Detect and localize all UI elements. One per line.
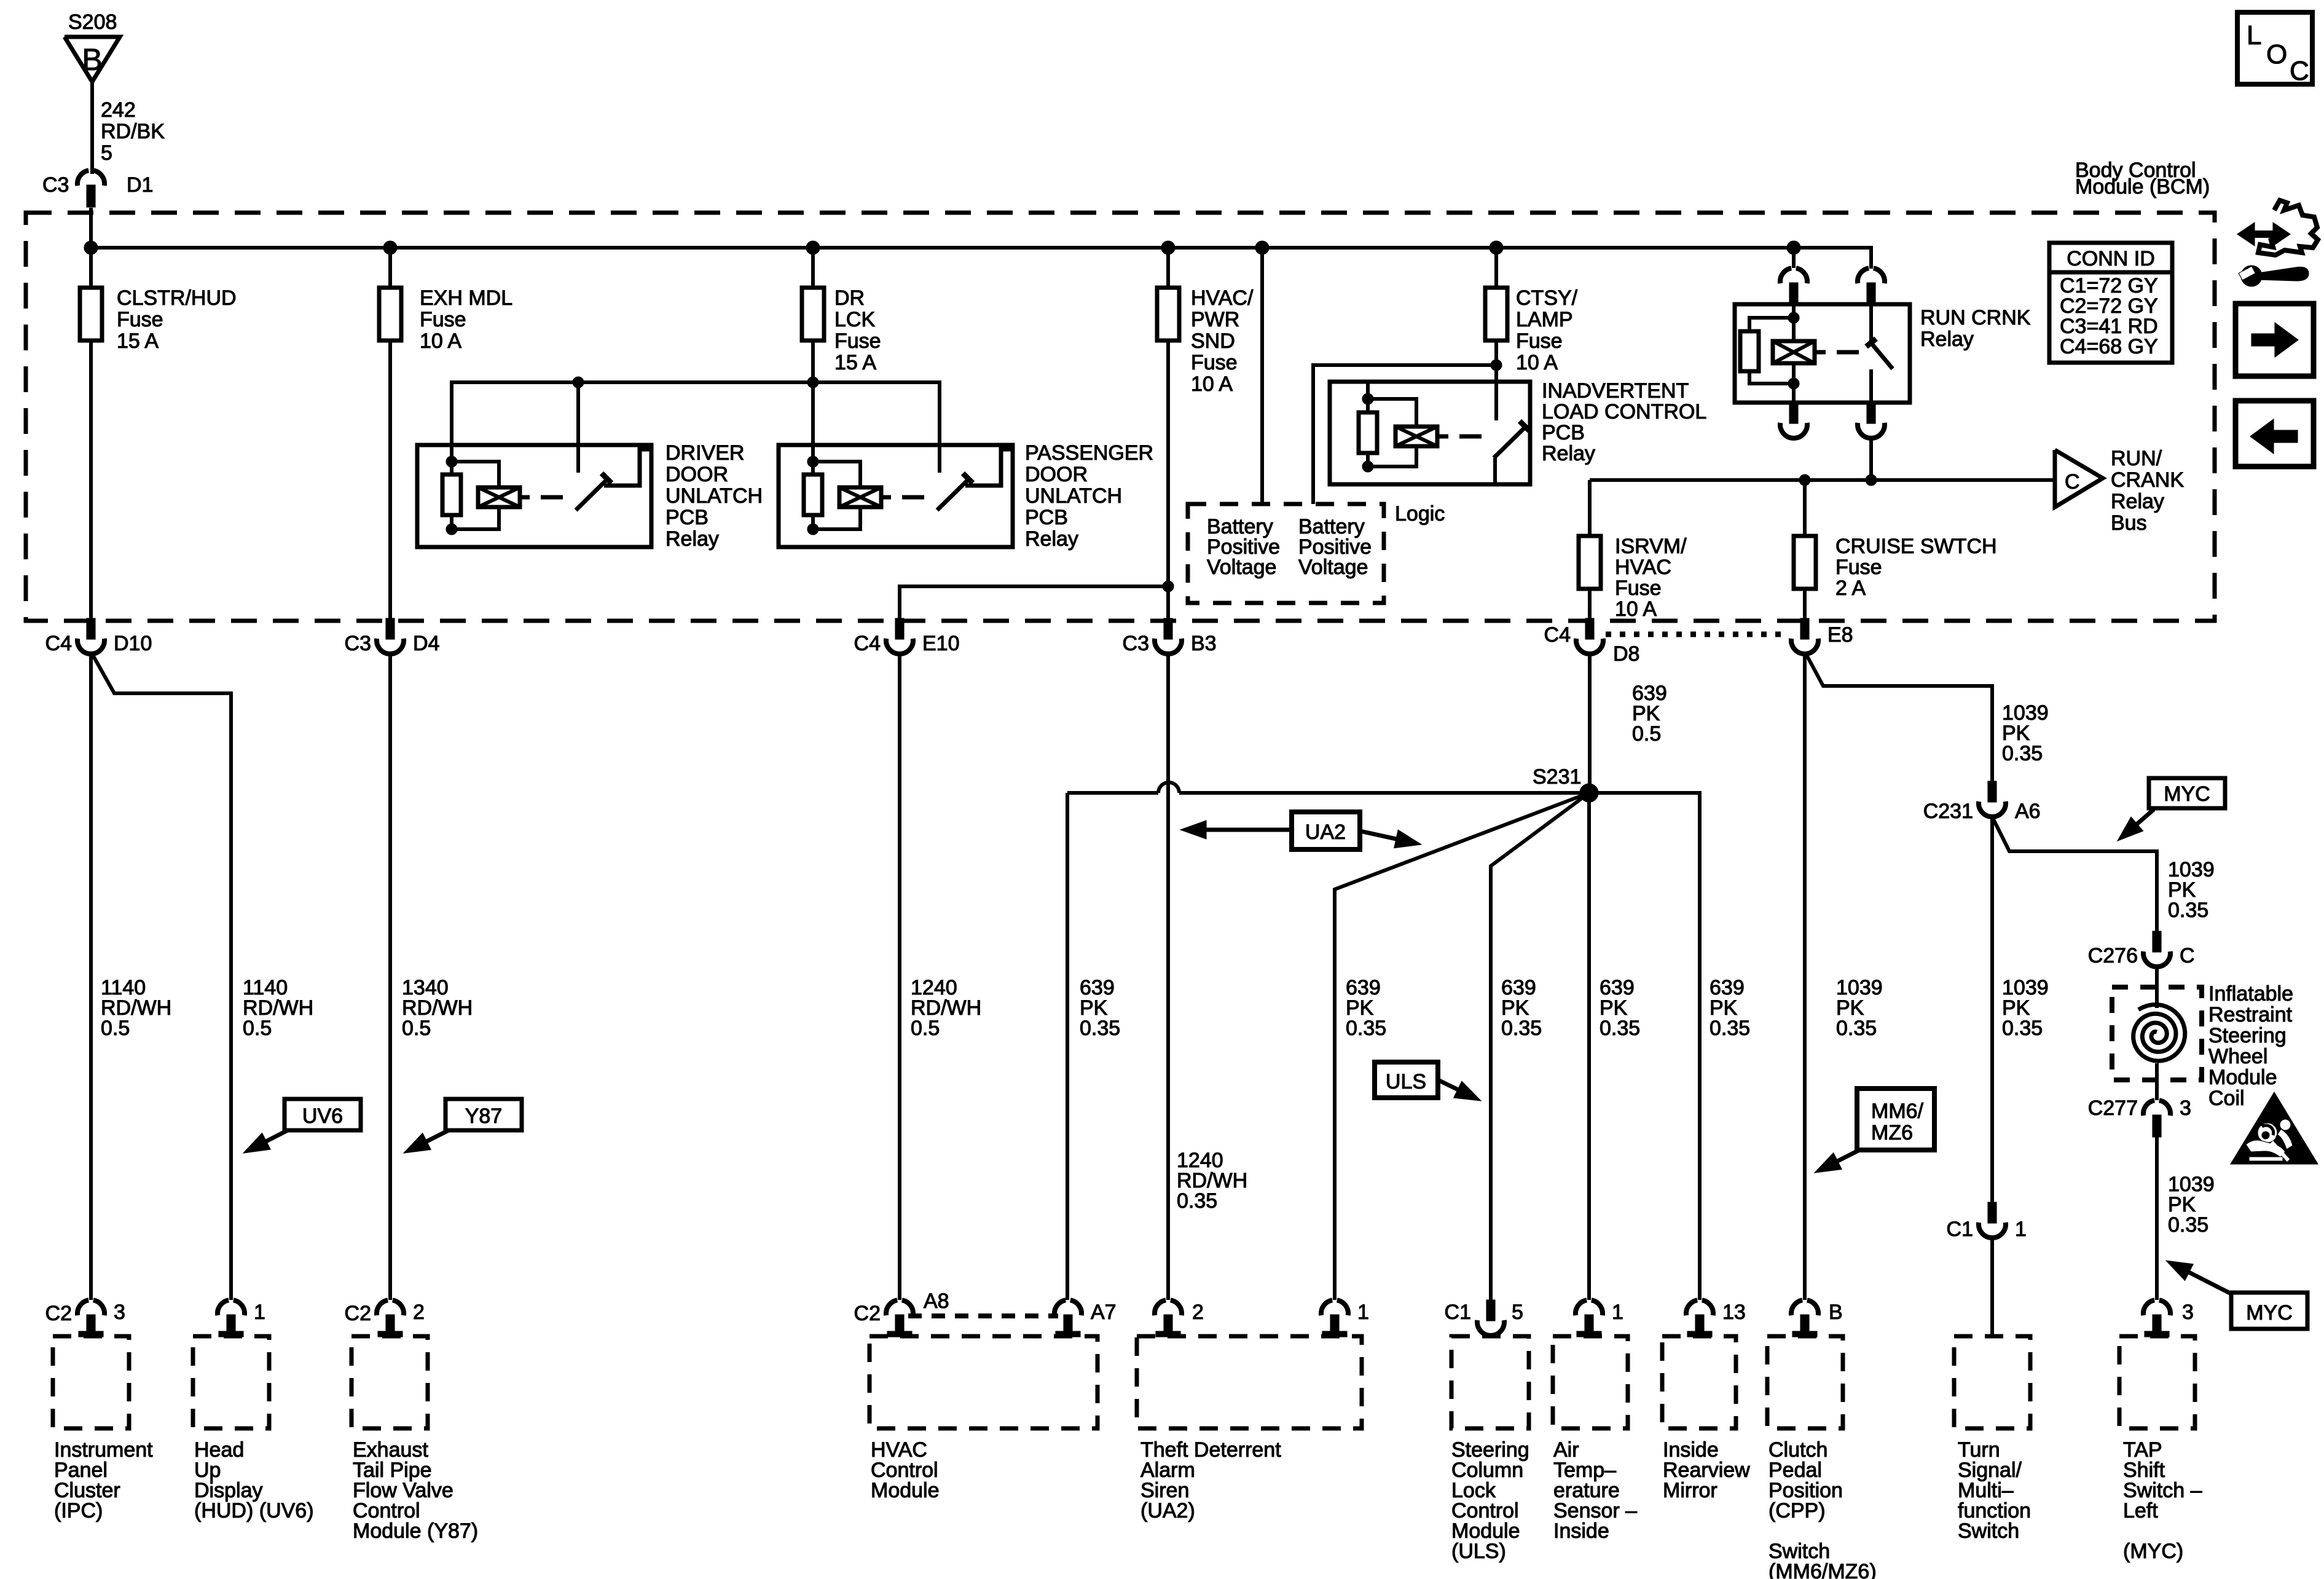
svg-text:PASSENGER: PASSENGER [1025, 441, 1153, 465]
svg-text:UNLATCH: UNLATCH [1025, 484, 1122, 508]
connector C3 B3 [1164, 618, 1172, 639]
svg-text:HVAC: HVAC [1615, 556, 1671, 579]
wire A6 down to turn signal C1 [1990, 817, 1994, 1202]
svg-text:0.5: 0.5 [402, 1017, 431, 1040]
svg-text:Voltage: Voltage [1298, 556, 1368, 579]
svg-text:UA2: UA2 [1305, 821, 1346, 844]
run crnk relay switch drop connector [1869, 248, 1873, 268]
nav arrow right box [2236, 304, 2314, 376]
svg-text:(MM6/MZ6): (MM6/MZ6) [1769, 1560, 1877, 1579]
svg-text:Module (BCM): Module (BCM) [2075, 175, 2210, 199]
svg-text:Y87: Y87 [465, 1105, 503, 1128]
bus junction dot at DR LCK fuse [806, 241, 820, 254]
passenger door unlatch relay coil junction dots [807, 456, 819, 467]
wire coil to C277 [2155, 1063, 2159, 1100]
wire S231 diagonal to theft siren pin 1 [1335, 793, 1589, 1300]
svg-text:0.35: 0.35 [2002, 1017, 2043, 1040]
driver door unlatch relay coil junction dots [446, 456, 457, 467]
passenger door unlatch relay dashed actuator link [881, 495, 891, 500]
Body Control Module (BCM) dashed border [26, 213, 2215, 621]
connector 13 mirror [1686, 1300, 1697, 1315]
inadvertent relay dashed actuator link [1437, 435, 1448, 439]
bus junction dot at HVAC fuse [1161, 241, 1175, 254]
driver door unlatch relay dashed actuator link [520, 495, 530, 500]
bus junction dot at EXH MDL fuse [383, 241, 397, 254]
svg-text:0.35: 0.35 [1080, 1017, 1120, 1040]
connector C1 1 turn signal [1988, 1202, 1996, 1223]
svg-text:(IPC): (IPC) [54, 1499, 103, 1522]
run crnk relay resistor loop [1749, 318, 1794, 331]
svg-text:Voltage: Voltage [1207, 556, 1276, 579]
svg-text:Logic: Logic [1395, 502, 1445, 526]
adjust icon outline [2258, 200, 2318, 255]
nav arrow left box [2236, 401, 2314, 467]
driver door unlatch relay coil X-box [478, 487, 520, 507]
wire CTSY node to battery feed corner [1313, 365, 1496, 504]
svg-text:3: 3 [114, 1301, 125, 1324]
MYC arrow lower [2189, 1272, 2232, 1294]
run crnk relay coil dots [1788, 312, 1799, 323]
wire CRUISE fuse to E8 [1803, 589, 1807, 621]
MYC arrow upper [2137, 809, 2154, 824]
wire ISRVM fuse to D8 [1588, 589, 1592, 621]
steering column lock module box [1451, 1336, 1529, 1428]
passenger door unlatch relay switch fixed contact [965, 449, 1013, 486]
svg-text:PWR: PWR [1191, 308, 1239, 331]
svg-text:(MYC): (MYC) [2123, 1540, 2183, 1563]
wire D8 to S231 [1588, 654, 1592, 793]
svg-text:A7: A7 [1091, 1301, 1117, 1324]
fuse DR LCK 15A [811, 248, 815, 288]
svg-text:5: 5 [101, 141, 112, 165]
wire C276 to coil [2155, 967, 2159, 1008]
svg-text:PCB: PCB [1025, 506, 1068, 529]
wire B3 to theft siren pin 2 [1166, 654, 1170, 1300]
svg-text:LCK: LCK [834, 308, 875, 331]
svg-text:3: 3 [2182, 1301, 2194, 1324]
wire D10 to IPC [89, 654, 93, 1300]
svg-text:E8: E8 [1827, 623, 1853, 647]
svg-text:0.5: 0.5 [243, 1017, 272, 1040]
adjust icon double arrow [2251, 230, 2277, 238]
wire D10 branch to HUD [92, 654, 231, 1300]
nav arrow right [2251, 334, 2279, 346]
svg-text:1: 1 [254, 1301, 265, 1324]
connector E8 [1800, 618, 1809, 639]
fuse CRUISE SWTCH 2A [1794, 536, 1816, 589]
inadvertent relay switch feed [1494, 365, 1498, 420]
UA2 arrow right [1360, 831, 1396, 839]
inadvertent relay coil dots [1362, 393, 1373, 404]
tap shift switch box [2119, 1336, 2195, 1428]
bus junction dot at CLSTR fuse [84, 241, 98, 254]
svg-text:Fuse: Fuse [1191, 351, 1238, 374]
svg-text:RUN CRNK: RUN CRNK [1920, 306, 2031, 329]
run crnk relay coil wire [1792, 304, 1796, 318]
svg-text:Module: Module [2208, 1066, 2277, 1089]
svg-text:Fuse: Fuse [117, 308, 163, 331]
svg-text:Fuse: Fuse [1835, 556, 1882, 579]
run crnk relay output wire [1869, 438, 1873, 480]
svg-text:ISRVM/: ISRVM/ [1615, 535, 1687, 558]
svg-text:C1: C1 [1947, 1218, 1973, 1241]
fuse ISRVM/HVAC 10A [1579, 536, 1601, 589]
svg-text:S208: S208 [68, 10, 117, 34]
svg-text:C: C [2065, 470, 2080, 494]
svg-text:Steering: Steering [2208, 1024, 2287, 1047]
driver door unlatch relay coil resistor [450, 462, 453, 474]
svg-text:10 A: 10 A [1191, 372, 1233, 396]
connector 3 TAP [2143, 1300, 2154, 1315]
svg-text:0.35: 0.35 [1836, 1017, 1877, 1040]
svg-text:L: L [2247, 20, 2261, 50]
svg-text:C4=68 GY: C4=68 GY [2060, 335, 2158, 358]
connector C231 A6 [1988, 781, 1996, 802]
svg-text:DR: DR [834, 286, 865, 310]
svg-text:O: O [2266, 39, 2287, 69]
turn signal switch box [1954, 1336, 2030, 1428]
inadvertent relay box [1330, 382, 1530, 484]
svg-text:EXH MDL: EXH MDL [420, 286, 512, 310]
svg-text:Relay: Relay [1542, 442, 1595, 465]
svg-text:D8: D8 [1613, 642, 1639, 666]
svg-text:C4: C4 [1544, 623, 1571, 647]
wire E8 diagonal to C231 [1806, 654, 1992, 781]
svg-text:Inside: Inside [1553, 1519, 1609, 1543]
adjust icon wrench [2259, 267, 2309, 281]
svg-text:MYC: MYC [2164, 782, 2210, 806]
svg-text:RD/BK: RD/BK [101, 120, 165, 143]
svg-text:Fuse: Fuse [1615, 577, 1662, 600]
junction dot HVAC branch [1163, 581, 1174, 592]
MYC option box lower [2231, 1293, 2307, 1329]
wire EXH fuse to D4 [388, 341, 392, 621]
wire CTSY fuse to relay switch [1494, 341, 1498, 420]
UV6 option box [285, 1099, 361, 1130]
wire from D1 to bus [89, 208, 93, 288]
svg-text:0.5: 0.5 [101, 1017, 130, 1040]
svg-text:C2: C2 [345, 1302, 371, 1325]
svg-text:MZ6: MZ6 [1871, 1121, 1913, 1144]
exhaust tail pipe module box [351, 1336, 428, 1428]
inadvertent relay coil parallel branch [1368, 399, 1416, 427]
connector C2 2 Y87 [377, 1300, 388, 1315]
connector C1 5 ULS [1486, 1300, 1495, 1321]
svg-text:Module (Y87): Module (Y87) [353, 1519, 478, 1543]
svg-text:DRIVER: DRIVER [665, 441, 744, 465]
svg-text:0.35: 0.35 [1600, 1017, 1640, 1040]
svg-text:A6: A6 [2015, 800, 2041, 823]
svg-text:MM6/: MM6/ [1871, 1100, 1924, 1123]
driver door unlatch relay switch fixed contact [604, 449, 651, 486]
driver door unlatch relay box [417, 445, 651, 547]
svg-text:Module: Module [871, 1479, 940, 1502]
svg-text:0.35: 0.35 [1710, 1017, 1750, 1040]
svg-text:MYC: MYC [2246, 1301, 2293, 1325]
head up display box [193, 1336, 269, 1428]
driver door unlatch relay coil parallel branch [452, 462, 499, 487]
passenger door unlatch relay coil feed wire [811, 382, 815, 462]
svg-text:0.35: 0.35 [1346, 1017, 1386, 1040]
instrument panel cluster box [53, 1336, 129, 1428]
svg-text:E10: E10 [922, 632, 960, 655]
wire CLSTR fuse to D10 [89, 341, 93, 621]
svg-text:2: 2 [413, 1301, 425, 1324]
svg-text:HVAC/: HVAC/ [1191, 286, 1254, 310]
svg-text:C3: C3 [345, 632, 371, 655]
run crnk relay switch lower contact [1869, 369, 1873, 403]
ULS option box [1375, 1062, 1438, 1098]
driver door unlatch relay switch blade [576, 480, 607, 510]
passenger door unlatch relay coil X-box [839, 487, 881, 507]
svg-text:Mirror: Mirror [1663, 1479, 1717, 1502]
svg-text:B3: B3 [1191, 632, 1217, 655]
svg-text:C2: C2 [45, 1302, 72, 1325]
inadvertent relay coil feed [1366, 382, 1370, 399]
wire S231 left to A7 with hop [1179, 791, 1589, 795]
svg-text:C277: C277 [2088, 1097, 2138, 1120]
svg-text:2: 2 [1192, 1301, 1204, 1324]
wire S231 right to mirror [1589, 793, 1700, 1300]
run crnk relay dashed actuator link [1815, 350, 1826, 355]
run/crank bus C triangle [2055, 450, 2103, 507]
junction dot cruise feed [1799, 474, 1810, 486]
svg-text:Left: Left [2123, 1499, 2158, 1522]
wire bus to battery box [1260, 248, 1264, 504]
svg-text:C3: C3 [1123, 632, 1149, 655]
svg-text:Relay: Relay [665, 527, 719, 551]
svg-text:C2: C2 [854, 1302, 881, 1325]
run crnk relay coil return connector [1789, 403, 1798, 423]
splice S231 [1580, 784, 1598, 802]
svg-text:SND: SND [1191, 329, 1235, 353]
wire C277 to TAP switch [2155, 1137, 2159, 1300]
UV6 arrow [266, 1130, 288, 1141]
svg-text:0.35: 0.35 [1177, 1189, 1217, 1213]
run crnk relay box [1735, 304, 1910, 403]
fuse CTSY/LAMP 10A [1494, 248, 1498, 288]
svg-text:INADVERTENT: INADVERTENT [1542, 379, 1689, 403]
svg-text:10 A: 10 A [1516, 351, 1558, 374]
svg-text:C4: C4 [45, 632, 72, 655]
wire DR LCK fuse to relay rail [811, 341, 815, 382]
driver door unlatch relay coil feed wire [450, 382, 453, 462]
BCM internal bus wire [91, 248, 1871, 269]
svg-text:CRANK: CRANK [2111, 468, 2184, 492]
svg-text:242: 242 [101, 98, 136, 122]
air temperature sensor box [1553, 1336, 1628, 1428]
wire to ISRVM fuse [1588, 480, 1592, 536]
svg-text:15 A: 15 A [834, 351, 876, 374]
Y87 option box [446, 1099, 522, 1130]
svg-text:Wheel: Wheel [2208, 1045, 2267, 1068]
svg-text:Relay: Relay [1025, 527, 1078, 551]
svg-text:0.35: 0.35 [2168, 899, 2208, 922]
connector C4 D8 [1585, 618, 1594, 639]
dashed line A8 to A7 [908, 1313, 1058, 1318]
svg-text:(HUD) (UV6): (HUD) (UV6) [194, 1499, 314, 1522]
svg-text:Relay: Relay [1920, 328, 1974, 351]
svg-text:1: 1 [1612, 1301, 1623, 1324]
connector C277 3 [2143, 1100, 2154, 1116]
run crnk relay coil drop connector [1792, 248, 1796, 268]
wire S231 diagonal to ULS [1491, 793, 1589, 1300]
svg-text:0.35: 0.35 [2002, 742, 2043, 765]
svg-text:C1: C1 [1445, 1301, 1471, 1324]
connector 1 theft siren [1321, 1300, 1332, 1315]
svg-text:LOAD CONTROL: LOAD CONTROL [1542, 400, 1706, 423]
theft deterrent siren box [1137, 1336, 1362, 1428]
inadvertent relay switch blade [1494, 428, 1525, 458]
svg-text:CTSY/: CTSY/ [1516, 286, 1578, 310]
svg-text:0.35: 0.35 [2168, 1213, 2208, 1237]
svg-text:(CPP): (CPP) [1769, 1499, 1826, 1522]
hvac control module box [870, 1336, 1097, 1428]
wire S231 down to air temp sensor [1587, 793, 1591, 1300]
svg-text:CLSTR/HUD: CLSTR/HUD [117, 286, 237, 310]
passenger door unlatch relay coil parallel branch [813, 462, 860, 487]
inflatable restraint coil dashed box [2112, 987, 2202, 1080]
svg-text:(ULS): (ULS) [1451, 1540, 1506, 1563]
svg-text:DOOR: DOOR [1025, 463, 1088, 486]
wire 242 RD/BK from S208 to C3 D1 [90, 82, 94, 174]
passenger door unlatch relay box [779, 445, 1013, 547]
inside rearview mirror box [1662, 1336, 1736, 1428]
run crnk relay switch blade [1871, 343, 1893, 369]
junction dot CTSY node [1491, 360, 1502, 371]
svg-text:(UA2): (UA2) [1140, 1499, 1195, 1522]
svg-text:Fuse: Fuse [1516, 329, 1563, 353]
svg-text:13: 13 [1722, 1301, 1746, 1324]
svg-text:UV6: UV6 [302, 1105, 343, 1128]
svg-text:0.35: 0.35 [1501, 1017, 1542, 1040]
svg-text:D1: D1 [127, 173, 153, 197]
nav arrow left [2270, 430, 2298, 443]
inflatable restraint coil spiral [2134, 1005, 2185, 1061]
inadvertent relay switch pivot wire [1493, 458, 1497, 484]
svg-text:10 A: 10 A [420, 329, 461, 353]
connector C3 D1 [77, 170, 88, 186]
svg-text:Switch: Switch [1958, 1519, 2019, 1543]
wire D4 to Y87 [388, 654, 392, 1300]
wire to CRUISE fuse [1803, 480, 1807, 536]
MM6/MZ6 option box [1857, 1089, 1934, 1150]
svg-text:10 A: 10 A [1615, 597, 1657, 621]
svg-text:UNLATCH: UNLATCH [665, 484, 763, 508]
svg-text:Fuse: Fuse [420, 308, 466, 331]
clutch pedal position switch box [1767, 1336, 1843, 1428]
svg-text:3: 3 [2180, 1097, 2191, 1120]
svg-text:LAMP: LAMP [1516, 308, 1573, 331]
junction dot run crnk output [1866, 474, 1877, 486]
dotted connector face D8 to E8 [1606, 632, 1789, 637]
connector C4 E10 [895, 618, 904, 639]
fuse EXH MDL 10A [388, 248, 392, 288]
LOC locator box [2237, 12, 2312, 84]
svg-text:C3: C3 [42, 173, 69, 197]
svg-text:Coil: Coil [2208, 1087, 2245, 1110]
svg-text:D10: D10 [114, 632, 152, 655]
svg-text:PCB: PCB [1542, 421, 1585, 444]
svg-text:S231: S231 [1533, 765, 1581, 789]
wire E8 to CPP switch [1803, 654, 1807, 1300]
bus junction dot at RUN CRNK relay coil [1787, 241, 1800, 254]
svg-text:DOOR: DOOR [665, 463, 728, 486]
svg-text:C276: C276 [2088, 944, 2138, 967]
svg-text:C231: C231 [1923, 800, 1973, 823]
wire HVAC fuse to B3 [1166, 341, 1170, 621]
svg-text:Fuse: Fuse [834, 329, 881, 353]
svg-text:C: C [2290, 56, 2309, 86]
svg-text:C: C [2180, 944, 2195, 967]
driver door unlatch relay switch feed wire [576, 382, 580, 473]
svg-text:0.5: 0.5 [911, 1017, 940, 1040]
svg-text:B: B [82, 42, 102, 77]
ULS arrow [1438, 1080, 1458, 1090]
svg-text:Inflatable: Inflatable [2208, 982, 2293, 1006]
passenger door unlatch relay switch feed wire [938, 382, 941, 473]
connector C2 A8 HVAC [886, 1300, 897, 1315]
run crnk relay coil X-box [1792, 318, 1796, 341]
svg-text:5: 5 [1512, 1301, 1523, 1324]
connector C276 C [2155, 930, 2159, 932]
svg-text:1: 1 [2015, 1218, 2027, 1241]
inadvertent relay coil resistor [1366, 399, 1370, 412]
wire A6 to corner [1992, 817, 2157, 930]
wire C1 to turn signal switch [1990, 1238, 1994, 1336]
UA2 option box [1292, 812, 1360, 849]
run crnk relay output connector [1867, 403, 1875, 423]
CONN ID table box [2049, 243, 2172, 363]
svg-text:A8: A8 [924, 1290, 949, 1313]
svg-text:15 A: 15 A [117, 329, 159, 353]
svg-text:Restraint: Restraint [2208, 1003, 2293, 1026]
svg-text:Relay: Relay [2111, 490, 2164, 513]
battery positive voltage dashed box [1188, 504, 1384, 603]
bus junction dot at battery feed [1255, 241, 1269, 254]
inadvertent relay coil X-box [1396, 427, 1437, 446]
svg-text:B: B [1829, 1301, 1843, 1324]
connector 2 theft siren [1155, 1300, 1166, 1315]
MYC option box upper [2149, 778, 2225, 808]
svg-text:PCB: PCB [665, 506, 709, 529]
connector C2 3 IPC [77, 1300, 88, 1315]
svg-text:RUN/: RUN/ [2111, 447, 2162, 470]
connector A7 HVAC [1054, 1300, 1066, 1315]
passenger door unlatch relay coil resistor [811, 462, 815, 474]
connector C4 D10 [87, 618, 95, 639]
svg-text:1: 1 [1357, 1301, 1369, 1324]
UA2 arrow left [1206, 828, 1292, 832]
wire run crnk output to C triangle [1590, 478, 2055, 482]
svg-text:0.5: 0.5 [1632, 722, 1661, 746]
passenger door unlatch relay switch blade [937, 480, 968, 510]
splice S208 triangle B [65, 37, 120, 82]
rail junction dot driver switch [573, 377, 584, 388]
svg-text:CONN ID: CONN ID [2067, 247, 2155, 270]
fuse HVAC/PWR SND 10A [1166, 248, 1170, 288]
wire HVAC branch to E10 [900, 586, 1168, 621]
bus junction dot at CTSY fuse [1490, 241, 1503, 254]
MM6/MZ6 arrow [1837, 1150, 1859, 1161]
run crnk relay switch feed [1869, 304, 1873, 342]
wire E10 to A8 [898, 654, 901, 1300]
connector 1 HUD [218, 1300, 229, 1315]
svg-text:ULS: ULS [1386, 1070, 1426, 1093]
rail junction dot passenger coil [807, 377, 819, 388]
svg-text:2 A: 2 A [1835, 577, 1866, 600]
svg-text:CRUISE SWTCH: CRUISE SWTCH [1835, 535, 1997, 558]
